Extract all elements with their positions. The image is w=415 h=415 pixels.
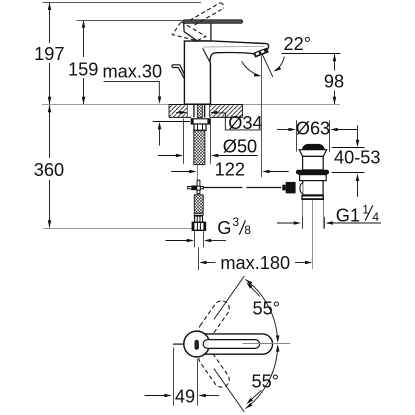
clamp screw block	[286, 182, 296, 194]
22 degree vertical reference line	[261, 56, 263, 177]
handle hub circle	[184, 331, 210, 357]
dimension Ø63	[296, 120, 298, 152]
extension line top (lever max height)	[43, 2, 201, 4]
handle stadium	[197, 334, 273, 354]
dimension 159	[83, 21, 85, 105]
dimension max.180	[198, 247, 200, 270]
svg-text:360: 360	[34, 160, 64, 180]
threaded shank below deck	[194, 130, 205, 164]
22 degree left arc arrow	[242, 61, 260, 75]
Ø50 extension lines	[183, 119, 185, 164]
aerator	[253, 48, 269, 58]
svg-text:40-53: 40-53	[334, 147, 381, 167]
max.30 lower reference line	[153, 121, 190, 123]
hose end fitting	[195, 216, 203, 222]
dimension 98	[334, 54, 336, 104]
dimension 197	[49, 3, 51, 104]
tailpipe	[302, 200, 304, 229]
deck hatched band	[169, 105, 243, 118]
spout underside curve	[210, 53, 255, 62]
spout chamfer line	[203, 45, 264, 48]
mounting nut	[194, 124, 206, 130]
body crease line	[203, 48, 210, 62]
svg-text:55°: 55°	[253, 299, 281, 319]
svg-text:max.30: max.30	[103, 62, 163, 82]
lever body	[184, 21, 211, 41]
svg-text:G1: G1	[336, 206, 360, 226]
dimension 40-53	[332, 147, 365, 149]
svg-text:G: G	[217, 218, 231, 238]
horizontal centerline right	[243, 343, 291, 345]
dimension 122	[171, 171, 189, 173]
svg-text:122: 122	[215, 159, 245, 179]
arc lower with arrows	[245, 347, 277, 409]
plug dome	[302, 144, 325, 150]
mid flange	[300, 175, 327, 181]
pop-up rod knob (rear)	[172, 65, 184, 79]
svg-text:22°: 22°	[284, 34, 312, 54]
threaded shank in deck	[194, 105, 205, 118]
stabilizer plate below deck	[191, 119, 210, 124]
hub dark mark	[195, 340, 199, 350]
handle slot	[203, 340, 259, 349]
svg-text:3: 3	[232, 215, 239, 229]
55 solid line upper	[214, 276, 244, 319]
svg-text:8: 8	[244, 223, 251, 237]
arc upper with arrows	[245, 279, 277, 341]
svg-text:159: 159	[68, 60, 98, 80]
bottom flange	[301, 195, 324, 200]
hub left tick	[173, 343, 184, 345]
dimension arrows hole Ø34	[180, 111, 187, 115]
G3/8 nut	[192, 222, 205, 230]
22 degree tilted line	[262, 54, 273, 77]
dimension 360	[49, 105, 51, 228]
svg-text:4: 4	[372, 210, 379, 224]
svg-text:Ø34: Ø34	[228, 113, 262, 133]
svg-text:98: 98	[324, 72, 344, 92]
G3/8 dimension	[194, 231, 196, 248]
dashed raised lever bar	[190, 3, 224, 25]
o-ring seal	[296, 170, 329, 175]
horizontal pop-up rod	[203, 187, 242, 189]
extension line 159 level	[77, 20, 189, 22]
svg-text:max.180: max.180	[220, 253, 290, 273]
flexible hose below	[194, 195, 203, 213]
faucet axis line below shank	[197, 165, 199, 181]
deck surface line	[42, 104, 340, 106]
55 solid line lower	[214, 369, 244, 412]
svg-text:55°: 55°	[252, 371, 280, 391]
reference line below (360 bottom)	[43, 228, 197, 230]
dimension G1 1/4	[302, 217, 304, 229]
dashed handle rotated up 55	[196, 298, 232, 341]
hose ferrule	[194, 213, 204, 216]
label Ø34 leader	[217, 113, 263, 130]
lower body	[303, 181, 323, 195]
svg-text:Ø50: Ø50	[223, 137, 257, 157]
faucet body outline	[184, 41, 269, 104]
drain centerline	[312, 200, 314, 269]
lever handle bar	[183, 20, 243, 24]
collar	[299, 150, 326, 157]
22 degree right arc arrow	[275, 57, 285, 71]
svg-text:197: 197	[34, 44, 64, 64]
dashed raised lever body	[172, 22, 206, 41]
ball joint bump	[300, 183, 303, 194]
svg-text:Ø63: Ø63	[296, 118, 330, 138]
svg-text:49: 49	[175, 387, 195, 407]
dimension 49	[173, 348, 175, 406]
pop-up cross fitting	[188, 180, 204, 193]
dashed handle rotated down 55	[196, 347, 232, 390]
upper body	[303, 156, 324, 170]
